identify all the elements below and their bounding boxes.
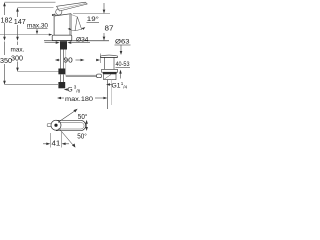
dim line 350 below deck — [4, 42, 6, 82]
dim max.180 — [57, 97, 61, 100]
svg-text:max.180: max.180 — [65, 96, 93, 103]
supply pipe upper — [60, 50, 62, 69]
waste lever diagonal — [104, 75, 111, 79]
svg-text:41: 41 — [52, 140, 61, 147]
lever knob / pivot cap — [56, 9, 62, 15]
rod ball joint — [97, 74, 102, 78]
dim 41 extension lines — [49, 133, 51, 148]
escutcheon-top extension line — [0, 34, 51, 36]
waste clamp nut — [102, 69, 118, 72]
svg-text:87: 87 — [105, 24, 114, 33]
dim line 182 vertical — [4, 3, 6, 39]
dim Ø34 right arrow with leader — [72, 42, 91, 44]
body inner edge — [68, 14, 70, 35]
19 deg angle line slanted — [77, 17, 82, 30]
deck line — [44, 40, 109, 42]
dim 40-53 lower arrow — [120, 73, 122, 79]
waste flange — [101, 55, 118, 57]
hose end G3/8 — [58, 82, 65, 88]
plan lever pill inner — [58, 122, 84, 129]
dim 182 extension line top — [5, 1, 56, 3]
svg-text:G: G — [68, 87, 73, 94]
svg-text:50°: 50° — [78, 113, 88, 121]
svg-text:40-53: 40-53 — [116, 61, 130, 68]
dim line max.300 below deck — [17, 42, 19, 69]
50 deg lower line with arrowhead — [59, 129, 73, 146]
tailpipe — [107, 80, 109, 109]
arrow down 147 — [16, 37, 19, 41]
leader arrow under max.30 — [36, 29, 38, 31]
svg-text:G1: G1 — [112, 83, 121, 90]
svg-text:Ø63: Ø63 — [115, 39, 130, 46]
90 extension line at waste — [99, 54, 101, 64]
pull rod vertical — [65, 50, 67, 76]
dim 41 arrows — [43, 143, 47, 145]
svg-text:50°: 50° — [77, 133, 87, 141]
swivel double arrow — [86, 122, 88, 129]
dim 87 upper arrow — [103, 3, 105, 10]
svg-text:/4: /4 — [123, 84, 127, 89]
plan center dot — [54, 124, 57, 127]
350 extension line to hose end — [5, 84, 59, 86]
50 deg upper line with arrowhead — [59, 111, 76, 122]
dim 87 lower arrow — [103, 33, 105, 37]
svg-text:182: 182 — [1, 15, 13, 24]
19 deg angle line vertical — [75, 17, 77, 31]
spout level extension line — [73, 13, 110, 15]
arrow down 182 — [3, 37, 6, 41]
arrow up 182 — [3, 2, 6, 6]
svg-text:90: 90 — [64, 56, 73, 65]
svg-text:19°: 19° — [87, 15, 99, 23]
dim 90 — [55, 59, 59, 61]
svg-text:Ø34: Ø34 — [76, 37, 89, 44]
plan lever pill outer — [56, 120, 86, 130]
plan view spout stub — [47, 124, 51, 127]
dim Ø34 left arrow — [45, 42, 57, 44]
300 extension line to nut — [18, 71, 61, 73]
svg-text:300: 300 — [11, 53, 23, 62]
svg-text:/8: /8 — [76, 88, 80, 93]
lever inner edge — [59, 3, 86, 9]
threaded shank — [60, 41, 67, 49]
escutcheon base — [52, 35, 72, 40]
svg-text:147: 147 — [14, 17, 26, 26]
horizontal pop-up rod — [66, 74, 97, 76]
faucet body — [52, 14, 71, 36]
arrow down 300 — [16, 68, 19, 72]
plan view base circle — [51, 120, 61, 130]
dim line 147 vertical — [17, 9, 19, 40]
body top to angle vertex connector — [71, 15, 77, 17]
nut dark band — [103, 72, 117, 74]
19 deg arc with arrows — [69, 27, 85, 30]
supply pipe lower — [60, 75, 62, 83]
waste neck — [104, 57, 106, 69]
faucet lever handle — [57, 2, 88, 11]
arrow down 350 — [3, 81, 6, 85]
dim 147 extension line — [18, 7, 54, 9]
waste body — [104, 74, 116, 80]
coupling nut — [58, 69, 65, 75]
arrow up 147 — [16, 8, 19, 12]
